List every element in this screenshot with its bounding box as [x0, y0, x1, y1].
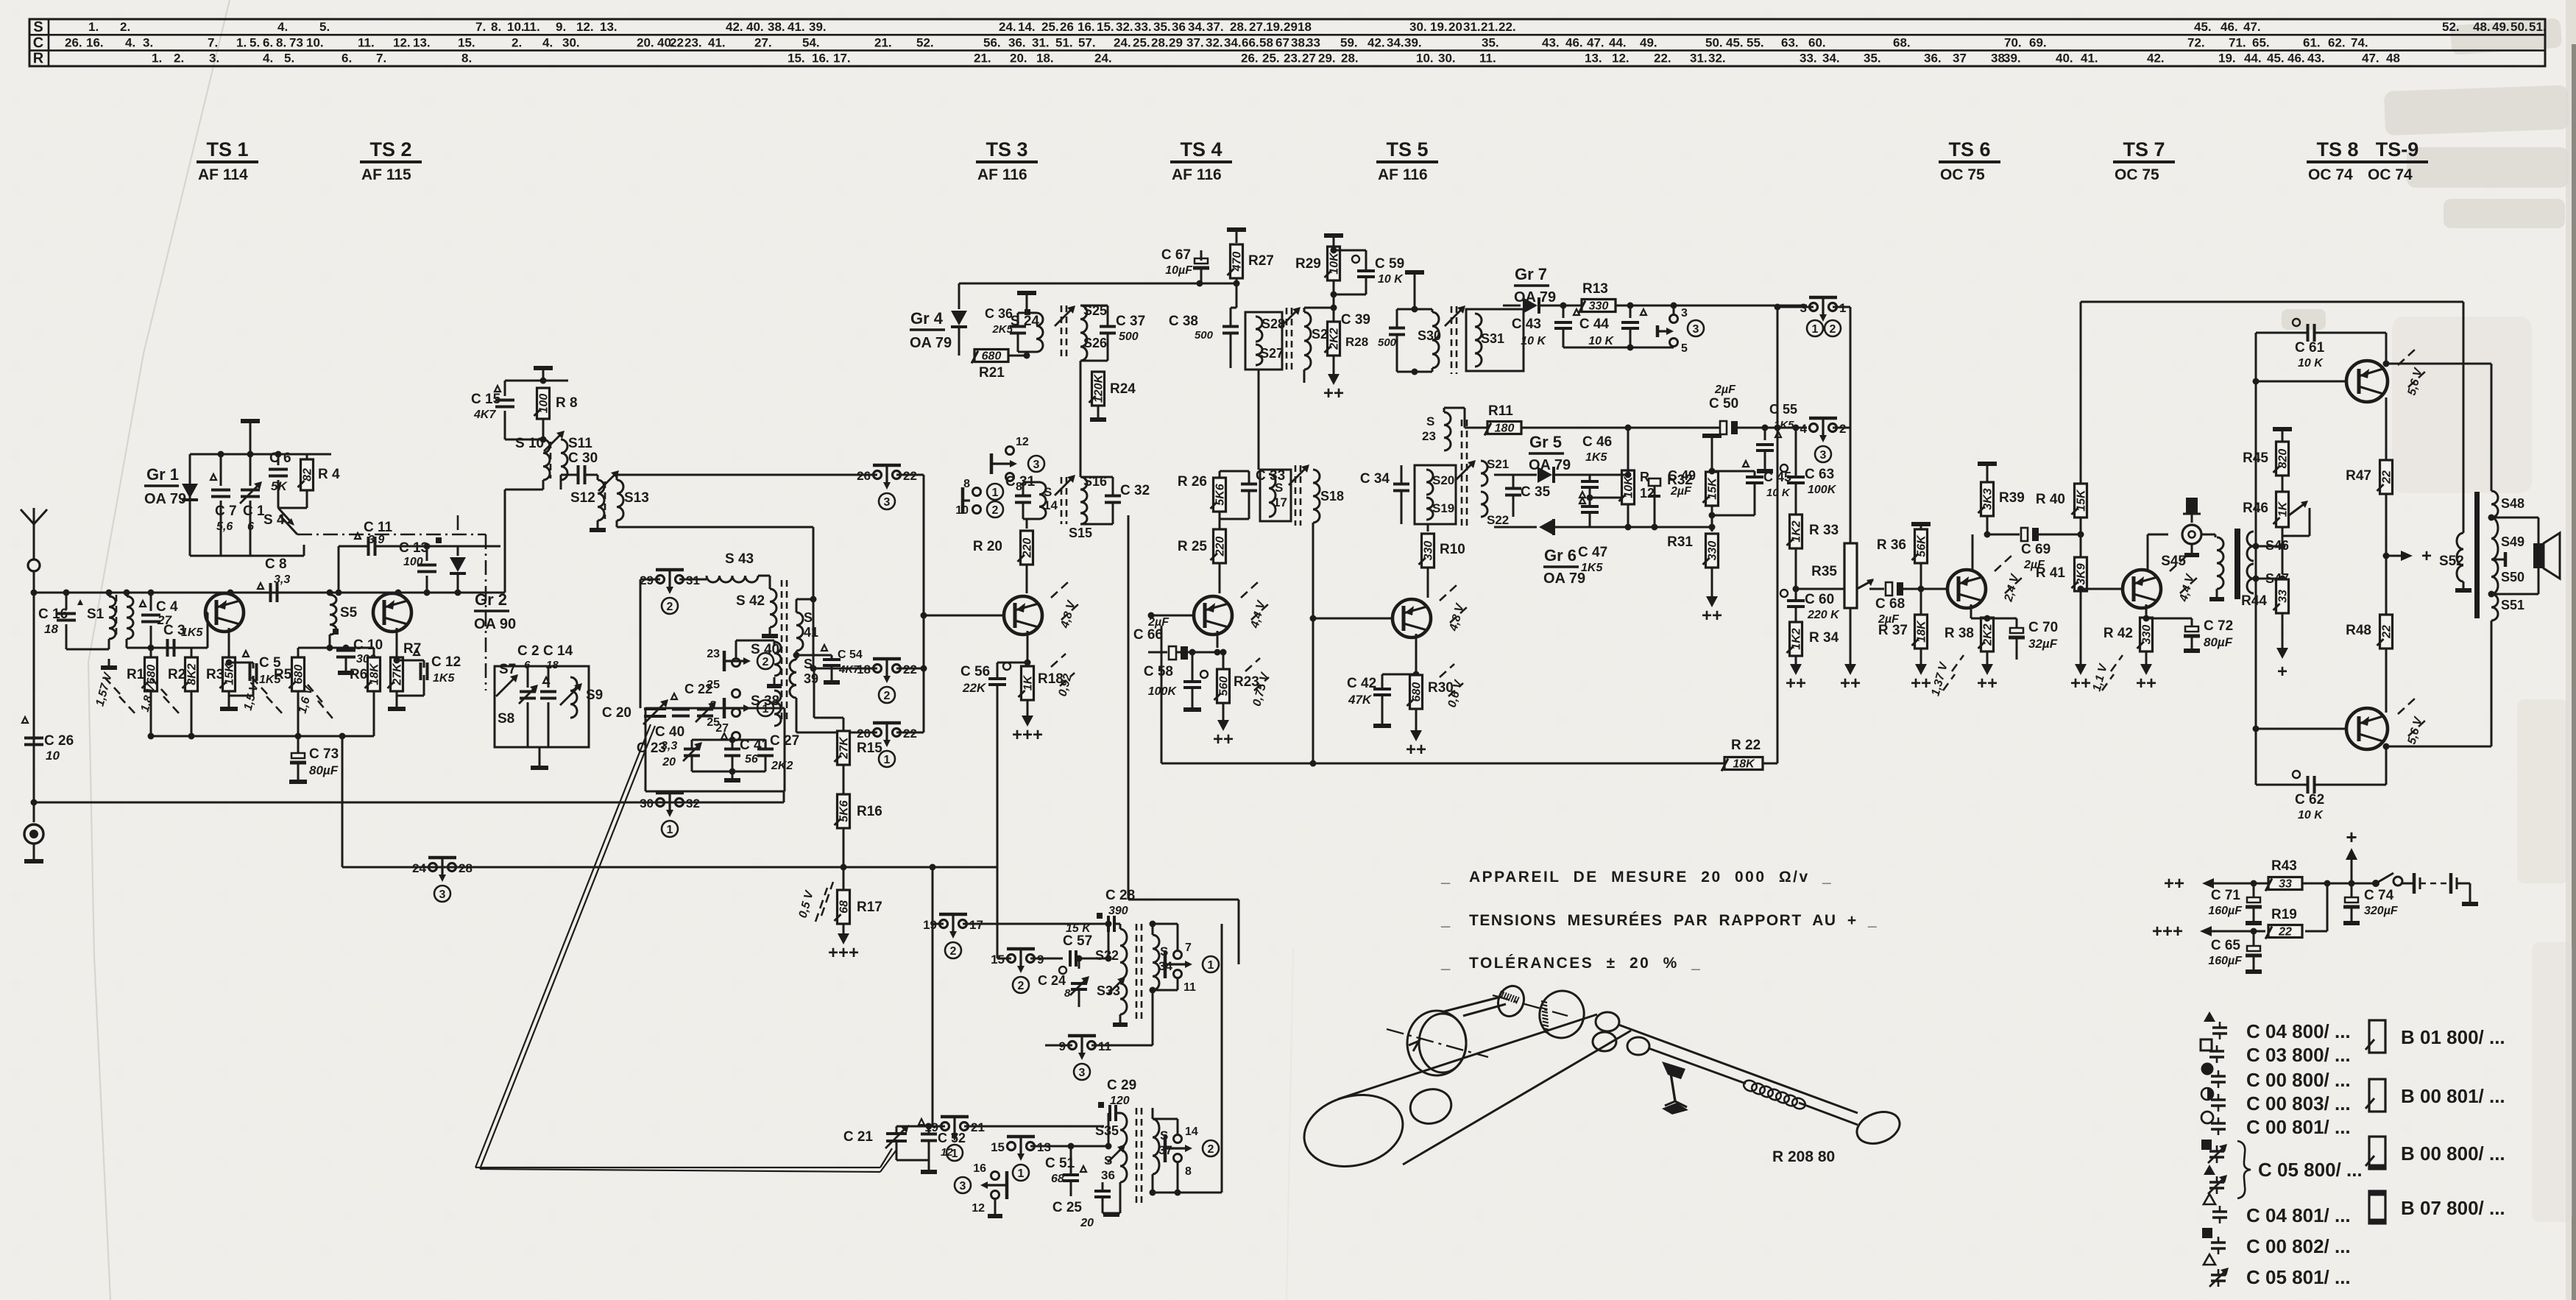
svg-text:R48: R48 [2346, 623, 2371, 638]
svg-text:2K2: 2K2 [1328, 328, 1341, 350]
svg-text:S1: S1 [87, 607, 105, 622]
capacitor C14 [540, 643, 573, 747]
svg-text:TS 2: TS 2 [369, 138, 411, 160]
svg-text:22: 22 [2381, 625, 2393, 639]
svg-text:320µF: 320µF [2364, 905, 2399, 917]
svg-text:AF 116: AF 116 [1378, 166, 1428, 183]
svg-text:36.: 36. [1924, 52, 1942, 66]
svg-text:44.: 44. [2244, 52, 2262, 66]
svg-text:7.: 7. [208, 35, 218, 49]
voltage 4,4V at TS4 [1241, 582, 1259, 598]
svg-text:S15: S15 [1069, 526, 1092, 540]
ground above R32 [1702, 434, 1722, 438]
svg-text:R21: R21 [979, 365, 1005, 381]
svg-text:19: 19 [923, 918, 937, 932]
svg-text:R6: R6 [350, 667, 367, 682]
svg-text:C 39: C 39 [1341, 312, 1370, 328]
svg-text:4.: 4. [263, 52, 273, 66]
stage label TS7 [2113, 138, 2175, 183]
coil S11 [561, 436, 592, 480]
capacitor C71 [2208, 883, 2262, 923]
svg-text:52.: 52. [916, 35, 934, 49]
svg-text:R47: R47 [2346, 468, 2371, 484]
svg-text:34.: 34. [1822, 52, 1840, 66]
capacitor C29 [1098, 1078, 1136, 1121]
svg-text:30.: 30. [1438, 52, 1456, 66]
svg-text:62.: 62. [2328, 35, 2346, 49]
IF coil S32 [1095, 929, 1127, 979]
capacitor C72 [2184, 618, 2233, 651]
svg-text:8K2: 8K2 [186, 663, 199, 685]
svg-text:C 25: C 25 [1052, 1200, 1083, 1215]
svg-text:680: 680 [982, 350, 1002, 363]
svg-text:45.: 45. [2267, 52, 2285, 66]
wire sw30 [679, 802, 784, 804]
gang link line [475, 724, 896, 1172]
svg-text:10.: 10. [507, 20, 525, 34]
ground above S24 [1017, 291, 1036, 295]
svg-text:OA 79: OA 79 [1514, 289, 1556, 305]
capacitor C32 [1080, 477, 1150, 524]
capacitor C10 [333, 629, 383, 673]
svg-text:31.: 31. [1463, 20, 1481, 34]
diode Gr1 [144, 465, 198, 507]
coil S38 [751, 690, 781, 726]
svg-text:R 40: R 40 [2036, 492, 2065, 507]
resistor R33 [1787, 515, 1839, 589]
switch contact 15-13 lower [1008, 1142, 1016, 1151]
wire C3 to R2 [174, 647, 191, 649]
svg-text:32.: 32. [1116, 20, 1133, 34]
svg-text:28.: 28. [1151, 35, 1169, 49]
svg-text:15K: 15K [224, 663, 236, 685]
svg-text:30.: 30. [1409, 20, 1427, 34]
svg-text:C 27: C 27 [770, 733, 799, 749]
IF coil S33 [1097, 977, 1128, 1025]
IF coil S35 [1095, 1113, 1127, 1147]
svg-text:74.: 74. [2351, 35, 2368, 49]
svg-text:1.: 1. [88, 20, 99, 34]
resistor R47 [2346, 412, 2393, 692]
capacitor C31 [1005, 474, 1036, 519]
coil S18 [1313, 470, 1344, 523]
svg-text:57.: 57. [1078, 35, 1096, 49]
svg-text:APPAREIL DE MESURE 20 000 Ω/v: APPAREIL DE MESURE 20 000 Ω/v _ [1469, 869, 1833, 886]
svg-text:22K: 22K [962, 681, 987, 695]
svg-text:R13: R13 [1582, 281, 1608, 297]
transistor TS1 [205, 590, 244, 658]
wire antenna down [33, 571, 35, 802]
svg-text:160µF: 160µF [2208, 955, 2243, 967]
coil S12 [570, 475, 606, 530]
svg-text:500: 500 [1119, 331, 1139, 343]
svg-text:R 20: R 20 [973, 539, 1002, 554]
svg-text:8.: 8. [276, 35, 286, 49]
svg-text:S: S [804, 610, 813, 625]
svg-text:61.: 61. [2303, 35, 2321, 49]
capacitor C34 [1360, 465, 1409, 524]
note appareil de mesure [1440, 867, 1833, 886]
cord long right upper [1618, 1025, 1858, 1113]
switch contact 24-28 [429, 863, 437, 872]
drive drum middle [1406, 1085, 1454, 1128]
svg-text:C 58: C 58 [1144, 664, 1173, 679]
svg-text:C 62: C 62 [2295, 792, 2324, 808]
svg-text:++: ++ [1406, 740, 1426, 760]
trimmer S9 [560, 677, 603, 718]
voltage 1,1V at R42 [2111, 655, 2123, 671]
svg-text:46.: 46. [2221, 20, 2238, 34]
wire TS3 collector loop down [1128, 515, 1130, 900]
wire sw20 right up [896, 732, 924, 734]
svg-text:S21: S21 [1487, 457, 1509, 471]
svg-text:R3: R3 [206, 667, 224, 682]
svg-text:++: ++ [2136, 674, 2156, 693]
wire S39 bottom to R15 [814, 717, 843, 719]
switch contact 27 [715, 722, 740, 741]
svg-text:C 55: C 55 [1769, 402, 1797, 417]
svg-text:1K5: 1K5 [181, 626, 203, 639]
driver transformer S45 [2161, 537, 2224, 599]
svg-text:C 05 800/ ...: C 05 800/ ... [2258, 1159, 2363, 1181]
capacitor C50 [1709, 384, 1807, 434]
svg-text:34.: 34. [1188, 20, 1206, 34]
legend symbol B07800 [2369, 1191, 2385, 1223]
coil S48 [2491, 491, 2524, 517]
svg-text:8: 8 [1064, 987, 1071, 1000]
wire C46 tap [1590, 497, 1627, 499]
svg-text:27K: 27K [392, 663, 404, 686]
junction + arrow mid output [2383, 546, 2432, 566]
transformer core S24-S25 [1061, 305, 1063, 361]
capacitor C56 [960, 660, 1031, 868]
table row S numbers [88, 20, 2547, 34]
svg-text:TS 7: TS 7 [2123, 138, 2165, 160]
resistor R6 [342, 648, 381, 736]
svg-text:R 26: R 26 [1178, 474, 1207, 490]
svg-text:C 04 800/ ...: C 04 800/ ... [2246, 1020, 2351, 1042]
svg-text:++: ++ [1323, 384, 1344, 403]
resistor R38 [1945, 615, 2017, 665]
legend symbol C00803 [2201, 1088, 2226, 1112]
ground above R39 [1978, 462, 1997, 466]
svg-text:2K2: 2K2 [1982, 623, 1995, 646]
svg-text:C 61: C 61 [2295, 340, 2325, 356]
svg-text:C 60: C 60 [1805, 592, 1834, 607]
svg-text:C 38: C 38 [1169, 314, 1198, 329]
svg-text:C 40: C 40 [655, 724, 684, 740]
TS5 input transformer [1415, 465, 1456, 524]
svg-text:2: 2 [1830, 323, 1836, 336]
capacitor C47 [1578, 495, 1607, 575]
resistor R13 [1579, 281, 1807, 314]
switch contact 12-8 [991, 436, 1044, 493]
svg-text:C 6: C 6 [269, 451, 291, 466]
ground above R36 [1911, 522, 1931, 526]
svg-text:S 4: S 4 [263, 512, 285, 528]
svg-text:5.: 5. [284, 52, 294, 66]
svg-text:68.: 68. [1893, 35, 1911, 49]
trim arrow S12 [598, 472, 618, 491]
svg-text:32.: 32. [1708, 52, 1726, 66]
stage label TS3 [976, 138, 1038, 183]
svg-text:13.: 13. [413, 35, 431, 49]
svg-text:C 10: C 10 [353, 637, 383, 653]
svg-text:1: 1 [1208, 959, 1214, 972]
svg-text:10 K: 10 K [2298, 357, 2324, 370]
svg-text:C 4: C 4 [156, 599, 178, 615]
svg-text:S 43: S 43 [725, 551, 754, 567]
svg-text:B 07 800/ ...: B 07 800/ ... [2401, 1197, 2505, 1219]
svg-text:3: 3 [1681, 307, 1688, 319]
diode Gr4 [910, 283, 967, 356]
transformer core S42-S41 [781, 580, 783, 720]
svg-text:R: R [33, 51, 44, 67]
capacitor C33 [1241, 468, 1285, 519]
switch contact 16-12 circled3 [955, 1162, 1007, 1215]
svg-text:C 43: C 43 [1512, 317, 1541, 332]
switch contact 7-11 circled1 [1165, 942, 1219, 994]
svg-text:OA 79: OA 79 [910, 335, 952, 351]
svg-text:100: 100 [538, 394, 551, 414]
svg-text:18: 18 [857, 663, 871, 677]
transistor TS8 [2256, 333, 2388, 402]
svg-text:3: 3 [439, 889, 446, 901]
svg-text:6.: 6. [342, 52, 352, 66]
svg-text:2.: 2. [174, 52, 184, 66]
chassis arrow R38 [1981, 664, 1993, 675]
capacitor C58 [1144, 649, 1208, 710]
svg-text:TENSIONS MESURÉES PAR RAPPORT: TENSIONS MESURÉES PAR RAPPORT AU + _ [1469, 912, 1878, 929]
IF transformer box S17 [1260, 470, 1291, 521]
svg-text:22.: 22. [1498, 20, 1516, 34]
capacitor C42 [1347, 671, 1420, 727]
gang capacitor C21 [843, 1125, 933, 1160]
svg-text:C 69: C 69 [2021, 542, 2050, 557]
switch contact 14-8 circled2 [1165, 1126, 1219, 1178]
voltage 4,8V at TS3 [1051, 582, 1069, 598]
svg-text:63.: 63. [1781, 35, 1799, 49]
svg-text:56.: 56. [983, 35, 1001, 49]
svg-text:C 05 801/ ...: C 05 801/ ... [2246, 1266, 2351, 1288]
svg-text:10.: 10. [1416, 52, 1434, 66]
wire R8 top [505, 380, 568, 382]
chassis arrow R30 [1410, 730, 1422, 741]
svg-text:68: 68 [838, 900, 851, 914]
wire sw29 left [640, 579, 660, 581]
coil S52 [2439, 302, 2471, 590]
wire base TS2 [298, 647, 374, 649]
svg-text:C 11: C 11 [364, 520, 393, 535]
coil S14 [1023, 482, 1058, 519]
stage label TS8 [2307, 138, 2368, 183]
svg-text:C 73: C 73 [309, 746, 339, 762]
svg-text:33: 33 [2279, 878, 2292, 891]
svg-text:100K: 100K [1148, 685, 1178, 698]
svg-text:3: 3 [1033, 459, 1040, 471]
table row C numbers [65, 35, 2368, 49]
svg-text:470: 470 [1231, 252, 1244, 272]
svg-text:47.: 47. [2362, 52, 2379, 66]
svg-text:37.: 37. [1206, 20, 1224, 34]
svg-text:C 74: C 74 [2364, 888, 2394, 903]
trimmer C24 [1038, 973, 1089, 1000]
svg-text:40.: 40. [2056, 52, 2073, 66]
svg-text:22: 22 [2278, 926, 2292, 939]
capacitor C59 [1331, 247, 1405, 298]
svg-text:8: 8 [1185, 1165, 1192, 1178]
svg-text:33.: 33. [1134, 20, 1152, 34]
svg-text:S48: S48 [2501, 496, 2524, 511]
svg-text:C 50: C 50 [1709, 396, 1738, 411]
capacitor C12 [394, 649, 461, 696]
ground under S7 box [539, 747, 541, 766]
svg-text:S20: S20 [1432, 473, 1454, 487]
svg-text:5K: 5K [271, 479, 288, 493]
svg-text:51.: 51. [1055, 35, 1073, 49]
svg-text:1K5: 1K5 [1585, 451, 1607, 464]
transistor TS5 [1310, 523, 1432, 767]
svg-text:18: 18 [1298, 20, 1312, 34]
svg-text:2µF: 2µF [1147, 616, 1170, 629]
stage label TS9 [2366, 138, 2428, 183]
svg-text:B 00 800/ ...: B 00 800/ ... [2401, 1142, 2505, 1165]
voltage 4,4V at TS7 [2170, 555, 2187, 571]
voltage 5,6V at TS8 [2398, 349, 2416, 365]
coil S50 [2491, 559, 2524, 594]
svg-text:18K: 18K [369, 663, 381, 685]
note tensions mesurees [1440, 911, 1878, 929]
coax connector [24, 802, 43, 861]
svg-text:OA 90: OA 90 [474, 616, 516, 632]
svg-text:R 22: R 22 [1731, 738, 1761, 753]
svg-text:++: ++ [1702, 606, 1722, 626]
svg-text:22.: 22. [1654, 52, 1671, 66]
capacitor C70 [2009, 618, 2058, 660]
wire sw17 right [963, 923, 1104, 925]
svg-text:S7: S7 [499, 662, 516, 677]
paper crease center [1287, 950, 1293, 1300]
svg-text:680: 680 [293, 665, 305, 685]
svg-text:Gr 4: Gr 4 [910, 309, 944, 328]
svg-text:4.: 4. [125, 35, 135, 49]
svg-text:Gr 2: Gr 2 [475, 590, 507, 609]
svg-text:R24: R24 [1110, 381, 1136, 397]
svg-text:S: S [1275, 481, 1283, 495]
transistor TS3 [924, 596, 1042, 663]
svg-text:28: 28 [459, 861, 473, 875]
svg-text:100: 100 [403, 556, 423, 568]
capacitor C39 [1341, 309, 1415, 372]
svg-text:C: C [33, 35, 43, 51]
svg-text:19.: 19. [1430, 20, 1448, 34]
svg-text:4.: 4. [277, 20, 288, 34]
svg-text:Gr 5: Gr 5 [1529, 433, 1562, 451]
svg-text:S18: S18 [1320, 489, 1344, 504]
cord pulley to knob [1444, 997, 1501, 1011]
svg-text:S: S [1104, 1154, 1112, 1167]
svg-text:33.: 33. [1800, 52, 1817, 66]
svg-text:18: 18 [44, 622, 58, 636]
svg-text:C 13: C 13 [399, 540, 428, 556]
switch contact 3-5 [1657, 307, 1704, 355]
resistor R39 [1978, 482, 2025, 538]
svg-text:++: ++ [1977, 674, 1998, 693]
wire S34 top [1152, 924, 1154, 935]
wire R12 top to R11 line [1627, 428, 1630, 475]
wire sw3-5 connections [1673, 305, 1675, 314]
svg-text:37.: 37. [1186, 35, 1204, 49]
resistor R28 [1325, 322, 1369, 374]
wire R5 bottom to bus [342, 736, 344, 867]
legend symbol C04801 [2204, 1194, 2227, 1223]
pulley axis dash-dot [1387, 1029, 1488, 1057]
cord long right lower [1649, 1048, 1746, 1084]
svg-text:10K: 10K [1328, 252, 1341, 275]
transformer core S30-S31 [1451, 306, 1453, 374]
coil S47 [2247, 564, 2289, 593]
wiring table frame [29, 19, 2545, 66]
capacitor C69 [1987, 528, 2081, 571]
svg-text:S27: S27 [1260, 346, 1284, 361]
svg-text:120K: 120K [1093, 373, 1105, 403]
svg-text:54.: 54. [802, 35, 820, 49]
svg-text:1K2: 1K2 [1791, 628, 1803, 649]
coil S24 [1011, 313, 1043, 359]
wire chassis bus y1090 [34, 802, 784, 804]
svg-text:11.: 11. [1479, 52, 1496, 66]
capacitor C54 [821, 645, 863, 682]
svg-text:S 38: S 38 [751, 693, 779, 709]
chassis arrow R28 [1328, 374, 1340, 385]
diode Gr5 [1494, 433, 1590, 483]
svg-text:C 00 801/ ...: C 00 801/ ... [2246, 1116, 2351, 1138]
svg-text:S: S [1426, 414, 1434, 428]
capacitor C15 [471, 381, 514, 425]
svg-text:1: 1 [667, 824, 673, 836]
svg-text:S28: S28 [1262, 317, 1285, 331]
svg-text:TS 1: TS 1 [206, 138, 248, 160]
resistor R5 [274, 648, 305, 736]
loudspeaker [2491, 517, 2560, 594]
voltage 4,8V at TS5 [1440, 584, 1457, 601]
svg-text:30.: 30. [562, 35, 580, 49]
voltage 2,4V at TS6 [1995, 555, 2012, 571]
svg-text:++: ++ [1786, 674, 1806, 693]
svg-text:R 8: R 8 [556, 395, 578, 411]
wire TS7 collector to S45 [2148, 534, 2168, 536]
wire Gr1 box [190, 453, 331, 456]
svg-text:2: 2 [762, 656, 769, 668]
wire C15 R8 join [504, 425, 506, 439]
chassis arrow TS3 emitter [1022, 716, 1033, 727]
capacitor C37 [1080, 305, 1145, 361]
svg-text:13.: 13. [600, 20, 618, 34]
svg-text:680: 680 [146, 665, 158, 685]
capacitor C11 [336, 520, 428, 596]
dial drum left [1297, 1085, 1411, 1176]
wire sw13 right [1030, 1145, 1108, 1148]
legend symbol C05800 [2201, 1140, 2251, 1198]
trimmer C2 [517, 643, 539, 747]
agc dash-dot line [297, 534, 486, 536]
resistor R11 [1444, 403, 1722, 436]
arrow ++ rail [2164, 874, 2214, 894]
coil S46 [2247, 531, 2289, 561]
resistor R20 [973, 519, 1034, 593]
svg-text:3: 3 [884, 496, 891, 509]
svg-text:_: _ [1440, 911, 1451, 929]
